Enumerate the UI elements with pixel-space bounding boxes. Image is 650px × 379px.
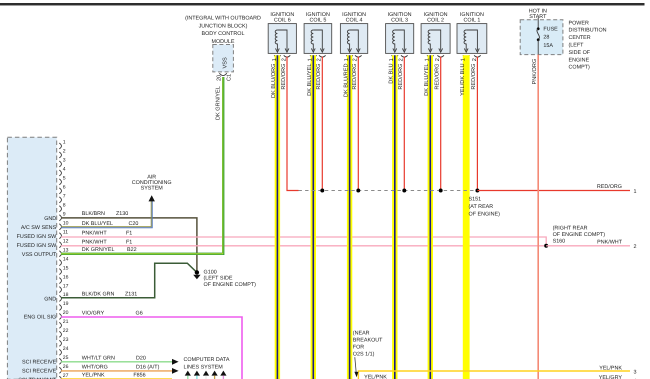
svg-text:COIL 5: COIL 5 — [309, 17, 326, 23]
svg-text:FUSED IGN SW: FUSED IGN SW — [17, 243, 57, 249]
PCM pin 24 — [59, 349, 61, 355]
wire YEL/DK BLU (ignition coil 1 pin 1, highlighted) — [463, 55, 470, 379]
svg-text:(LEFT: (LEFT — [569, 43, 585, 49]
arrow to air conditioning system — [149, 195, 155, 201]
PCM pin 18 — [59, 296, 61, 302]
svg-text:COIL 2: COIL 2 — [427, 17, 444, 23]
svg-text:F1: F1 — [126, 231, 132, 237]
svg-text:RED/ORG: RED/ORG — [397, 64, 404, 90]
svg-text:B22: B22 — [127, 247, 137, 253]
svg-text:DK BLU/ORG: DK BLU/ORG — [270, 64, 277, 99]
svg-text:SIDE OF: SIDE OF — [569, 50, 591, 56]
svg-text:PNK/WHT: PNK/WHT — [82, 231, 108, 237]
svg-text:YEL/DK BLU: YEL/DK BLU — [459, 64, 466, 96]
svg-text:RED/ORG: RED/ORG — [470, 64, 477, 90]
svg-text:C1: C1 — [227, 74, 233, 81]
svg-text:2: 2 — [435, 58, 441, 61]
svg-text:PNK/WHT: PNK/WHT — [82, 239, 108, 245]
svg-text:1: 1 — [272, 58, 278, 61]
svg-text:8: 8 — [63, 203, 66, 209]
svg-text:VIO/GRY: VIO/GRY — [82, 311, 105, 317]
svg-text:27: 27 — [63, 373, 69, 379]
svg-text:DISTRIBUTION: DISTRIBUTION — [569, 28, 607, 34]
wire RED/ORG (ignition coil 3 pin 2) — [403, 57, 405, 191]
svg-text:4: 4 — [63, 167, 66, 173]
svg-text:GND: GND — [44, 297, 56, 303]
svg-text:G100: G100 — [204, 269, 217, 275]
svg-text:23: 23 — [63, 337, 69, 343]
svg-text:12: 12 — [63, 238, 69, 244]
splice bus S151 dashed link — [299, 190, 478, 192]
wire PNK/WHT (S160 to connector 2) — [546, 245, 630, 247]
svg-text:16: 16 — [63, 274, 69, 280]
wire VIO/GRY G6 (pin 20, eng oil sig) — [61, 317, 242, 379]
svg-text:6: 6 — [63, 185, 66, 191]
PCM pin 5 — [59, 179, 61, 185]
svg-text:20: 20 — [217, 75, 223, 81]
svg-text:DK GRN/YEL: DK GRN/YEL — [82, 247, 115, 253]
svg-text:3: 3 — [63, 158, 66, 164]
svg-text:FUSED IGN SW: FUSED IGN SW — [17, 234, 57, 240]
svg-text:OF ENGINE): OF ENGINE) — [469, 212, 501, 218]
PCM pin 12 — [59, 242, 61, 248]
PCM pin 16 — [59, 278, 61, 284]
splice S160 — [544, 244, 548, 248]
svg-text:C20: C20 — [129, 221, 139, 227]
svg-text:S160: S160 — [553, 238, 566, 244]
svg-text:YEL/PNK: YEL/PNK — [82, 373, 105, 379]
svg-text:F856: F856 — [133, 373, 145, 379]
PCM pin 23 — [59, 340, 61, 346]
svg-text:SCI RECEIVE: SCI RECEIVE — [22, 359, 57, 365]
svg-text:1: 1 — [344, 58, 350, 61]
svg-text:F1: F1 — [126, 239, 132, 245]
splice dot S151 bus (coil 4) — [356, 189, 360, 193]
wire PNK/WHT F1 (pin 12) — [61, 245, 546, 247]
computer data line arrow 3 — [203, 371, 209, 376]
wire DK GRN/YEL B22 (pin 13 to BCM VSS) — [61, 77, 223, 254]
PCM pin 21 — [59, 322, 61, 328]
svg-text:COMPUTER DATA: COMPUTER DATA — [184, 357, 230, 363]
svg-text:FUSE: FUSE — [543, 26, 558, 32]
svg-text:LINES SYSTEM: LINES SYSTEM — [184, 364, 224, 370]
svg-text:17: 17 — [63, 283, 69, 289]
svg-text:10: 10 — [63, 221, 69, 227]
svg-text:BLK/BRN: BLK/BRN — [82, 211, 105, 217]
svg-text:SCI RECEIVE: SCI RECEIVE — [22, 368, 57, 374]
svg-text:COMPT): COMPT) — [569, 65, 590, 71]
svg-text:RED/ORG: RED/ORG — [434, 64, 441, 90]
svg-text:DK BLU/YEL: DK BLU/YEL — [306, 64, 313, 96]
svg-text:SYSTEM: SYSTEM — [141, 186, 164, 192]
body control module (BCM) box — [213, 45, 234, 72]
svg-text:1: 1 — [389, 58, 395, 61]
splice dot on S151 bus (coil 1) — [476, 189, 480, 193]
svg-text:2: 2 — [353, 58, 359, 61]
svg-text:1: 1 — [634, 189, 637, 195]
svg-text:3: 3 — [634, 369, 637, 375]
svg-text:24: 24 — [63, 346, 69, 352]
svg-text:BODY CONTROL: BODY CONTROL — [201, 31, 244, 37]
svg-text:Z131: Z131 — [125, 291, 137, 297]
svg-text:OF ENGINE COMPT): OF ENGINE COMPT) — [553, 232, 606, 238]
svg-text:(LEFT SIDE: (LEFT SIDE — [204, 276, 233, 282]
PCM pin 3 — [59, 161, 61, 167]
wire RED/ORG (S151 to connector 1) — [477, 190, 630, 192]
splice dot S151 bus (coil 2) — [439, 189, 443, 193]
computer data line arrow 5 — [220, 371, 226, 376]
svg-text:20: 20 — [63, 310, 69, 316]
svg-text:19: 19 — [63, 301, 69, 307]
svg-text:7: 7 — [63, 194, 66, 200]
svg-text:14: 14 — [63, 256, 69, 262]
svg-text:DK BLU/RED: DK BLU/RED — [342, 64, 349, 98]
svg-text:15: 15 — [63, 265, 69, 271]
svg-text:COIL 6: COIL 6 — [274, 17, 291, 23]
svg-text:WHT/LT GRN: WHT/LT GRN — [82, 355, 115, 361]
wire DK BLU/ORG (ignition coil 6 pin 1, highlighted) — [275, 55, 280, 379]
svg-text:21: 21 — [63, 319, 69, 325]
svg-text:1: 1 — [425, 58, 431, 61]
svg-text:YEL/PNK: YEL/PNK — [364, 374, 387, 379]
wire RED/ORG (ignition coil 2 pin 2) — [440, 57, 442, 191]
svg-text:FOR: FOR — [353, 344, 364, 350]
ground G100 — [195, 270, 199, 274]
svg-text:5: 5 — [63, 176, 66, 182]
svg-text:1: 1 — [63, 140, 66, 146]
wire YEL/PNK F856 (pin 27) — [61, 378, 172, 379]
wire BLK/DK GRN Z131 (pin 18 to G100) — [61, 263, 197, 298]
svg-text:15A: 15A — [543, 43, 553, 49]
svg-text:DK BLU/YEL: DK BLU/YEL — [423, 64, 430, 96]
svg-text:2: 2 — [63, 149, 66, 155]
svg-text:YEL/GRY: YEL/GRY — [599, 375, 623, 379]
svg-text:(AT REAR: (AT REAR — [469, 204, 494, 210]
PCM pin 17 — [59, 287, 61, 293]
power distribution center box — [520, 20, 563, 55]
wire DK BLU/RED (ignition coil 4 pin 1, highlighted) — [347, 55, 352, 379]
leader arrow to YEL/PNK breakout — [355, 357, 356, 372]
svg-text:JUNCTION BLOCK): JUNCTION BLOCK) — [199, 23, 248, 29]
svg-text:CENTER: CENTER — [569, 35, 591, 41]
svg-text:POWER: POWER — [569, 20, 589, 26]
svg-text:BREAKOUT: BREAKOUT — [353, 337, 383, 343]
wire PNK/WHT F1 (pin 11) — [61, 237, 546, 246]
svg-text:25: 25 — [63, 355, 69, 361]
wire RED/ORG (ignition coil 1 pin 2) — [476, 57, 478, 191]
wire RED/ORG (ignition coil 5 pin 2) — [321, 57, 323, 191]
wire DK BLU/YEL C20 (pin 10 to A/C system) — [61, 201, 151, 227]
svg-text:Z130: Z130 — [116, 211, 128, 217]
PCM pin 11 — [59, 233, 61, 239]
PCM pin 13 — [59, 251, 61, 257]
svg-text:(NEAR: (NEAR — [353, 330, 370, 336]
svg-text:MODULE: MODULE — [211, 39, 234, 45]
svg-text:OF ENGINE COMPT): OF ENGINE COMPT) — [204, 282, 257, 288]
PCM pin 25 — [59, 358, 61, 364]
fuse 28 15A — [537, 18, 539, 29]
svg-text:ENG OIL SIG: ENG OIL SIG — [24, 315, 56, 321]
computer data line arrow 4 — [212, 371, 218, 376]
wire DK BLU/YEL (ignition coil 5 pin 1, highlighted) — [311, 55, 316, 379]
svg-text:RED/ORG: RED/ORG — [597, 184, 622, 190]
svg-text:PNK/ORG: PNK/ORG — [531, 59, 538, 85]
wire DK BLU/YEL (ignition coil 2 pin 1, highlighted) — [428, 55, 433, 379]
svg-text:RED/ORG: RED/ORG — [280, 64, 287, 90]
svg-text:9: 9 — [63, 212, 66, 218]
computer data line arrow 1 — [185, 371, 191, 376]
svg-text:DK BLU/YEL: DK BLU/YEL — [82, 221, 113, 227]
computer data line arrow 2 — [194, 371, 200, 376]
svg-text:RED/ORG: RED/ORG — [315, 64, 322, 90]
svg-text:2: 2 — [634, 244, 637, 250]
svg-text:D16 (A/T): D16 (A/T) — [136, 365, 160, 371]
svg-text:26: 26 — [63, 364, 69, 370]
PCM pin 2 — [59, 152, 61, 158]
svg-text:VSS: VSS — [223, 57, 229, 68]
svg-text:WHT/ORG: WHT/ORG — [82, 365, 108, 371]
svg-text:11: 11 — [63, 229, 68, 235]
wire YEL/PNK (O2S heater, from bottom) — [358, 371, 630, 379]
svg-text:(INTEGRAL WITH OUTBOARD: (INTEGRAL WITH OUTBOARD — [185, 16, 261, 22]
PCM pin 14 — [59, 260, 61, 266]
svg-text:2: 2 — [281, 58, 287, 61]
splice dot S151 bus (coil 1) — [476, 189, 480, 193]
svg-text:DK GRN/YEL: DK GRN/YEL — [215, 86, 222, 120]
svg-text:2: 2 — [317, 58, 323, 61]
svg-text:DK BLU: DK BLU — [389, 64, 395, 84]
PCM pin 22 — [59, 331, 61, 337]
splice dot S151 bus (coil 5) — [320, 189, 324, 193]
PCM pin 6 — [59, 188, 61, 194]
splice dot S151 bus (coil 3) — [402, 189, 406, 193]
svg-text:COIL 1: COIL 1 — [463, 17, 480, 23]
svg-text:O2S 1/1): O2S 1/1) — [353, 351, 375, 357]
svg-text:A/C SW SENS: A/C SW SENS — [21, 225, 57, 231]
svg-text:22: 22 — [63, 328, 69, 334]
PCM pin 1 — [59, 143, 61, 149]
svg-text:VSS OUTPUT: VSS OUTPUT — [22, 252, 57, 258]
splice dot on S151 bus (coil 2) — [439, 189, 443, 193]
svg-text:1: 1 — [461, 58, 467, 61]
svg-text:COIL 3: COIL 3 — [391, 17, 408, 23]
svg-text:2: 2 — [399, 58, 405, 61]
top border line — [0, 3, 645, 5]
svg-text:PNK/WHT: PNK/WHT — [597, 239, 623, 245]
svg-text:G6: G6 — [136, 311, 143, 317]
PCM pin 26 — [59, 367, 61, 373]
wire WHT/LT GRN D20 (pin 25 sci receive) — [61, 361, 172, 363]
svg-text:(RIGHT REAR: (RIGHT REAR — [553, 225, 588, 231]
svg-text:ENGINE: ENGINE — [569, 57, 590, 63]
svg-text:2: 2 — [472, 58, 478, 61]
BCM pin 20 connector — [219, 73, 226, 75]
wire BLK/BRN Z130 (pin 9 to G100) — [61, 218, 197, 273]
PCM pin 7 — [59, 197, 61, 203]
svg-text:D20: D20 — [136, 355, 146, 361]
svg-text:BLK/DK GRN: BLK/DK GRN — [82, 291, 115, 297]
splice dot on S151 bus (coil 5) — [320, 189, 324, 193]
wire DK BLU (ignition coil 3 pin 1, highlighted) — [392, 55, 397, 379]
wire RED/ORG (ignition coil 4 pin 2) — [357, 57, 359, 191]
wire RED/ORG (ignition coil 6 pin 2) — [287, 57, 299, 191]
svg-text:RED/ORG: RED/ORG — [351, 64, 358, 90]
svg-text:1: 1 — [308, 58, 314, 61]
svg-text:GND: GND — [44, 216, 56, 222]
PCM pin 19 — [59, 305, 61, 311]
svg-text:28: 28 — [543, 35, 549, 41]
PCM connector C1 (left dashed box) — [7, 137, 56, 379]
wire PNK/ORG (fuse 28 output) — [537, 55, 539, 379]
PCM pin 8 — [59, 206, 61, 212]
svg-text:COIL 4: COIL 4 — [346, 17, 363, 23]
splice dot on S151 bus (coil 3) — [402, 189, 406, 193]
svg-text:YEL/PNK: YEL/PNK — [599, 365, 622, 371]
PCM pin 27 — [59, 376, 61, 379]
svg-text:13: 13 — [63, 247, 69, 253]
PCM pin 9 — [59, 215, 61, 221]
svg-text:S151: S151 — [469, 196, 482, 202]
wire WHT/ORG D16 (pin 26 sci receive) — [61, 370, 172, 372]
splice dot on S151 bus (coil 4) — [356, 189, 360, 193]
PCM pin 4 — [59, 170, 61, 176]
PCM pin 20 — [59, 314, 61, 320]
PCM pin 15 — [59, 269, 61, 275]
PCM pin 10 — [59, 224, 61, 230]
